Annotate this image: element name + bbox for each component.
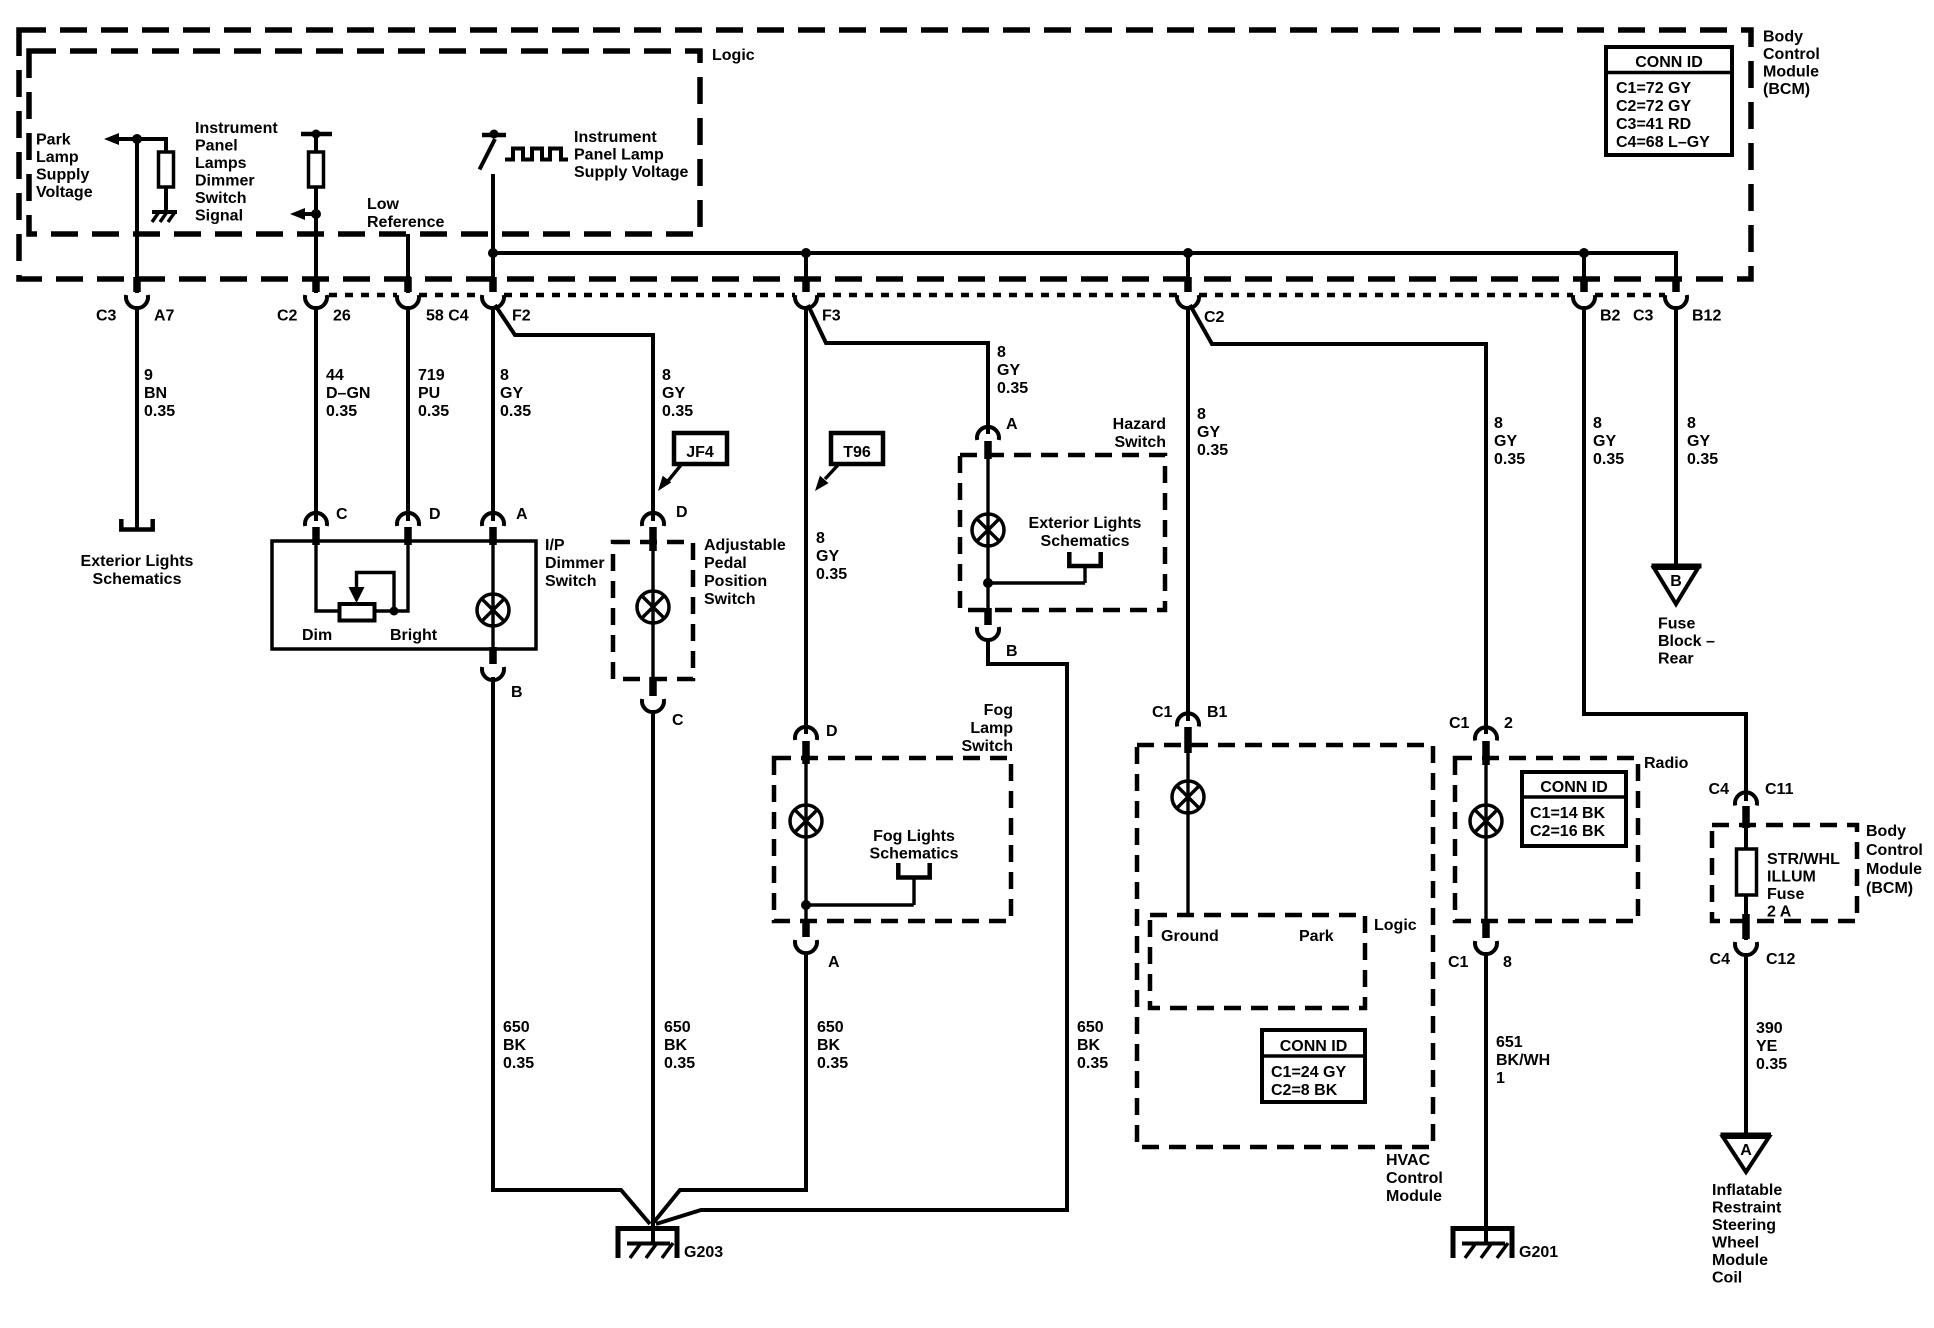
svg-text:Wheel: Wheel [1712,1235,1759,1252]
connector HVAC C1 pin B1 [1152,704,1228,753]
wire 8 GY F2 to dimmer A [491,306,495,521]
off-page bracket exterior lights [121,519,152,530]
label Dim [302,627,332,644]
connector C4 pin 58 [397,277,469,325]
svg-text:0.35: 0.35 [664,1055,695,1072]
connector C4 pin F3 [795,277,841,325]
svg-text:Ground: Ground [1161,928,1219,945]
wire resistor to ground [164,187,168,212]
label Bright [390,627,438,644]
svg-text:Fuse: Fuse [1767,886,1804,903]
wire F2 branch to pedal D [495,305,653,521]
label Hazard Switch [1113,416,1166,451]
label Exterior Lights Schematics (hazard) [1029,515,1142,550]
svg-text:Lamp: Lamp [970,720,1013,737]
lamp hazard illumination [972,514,1004,546]
svg-text:C2=72 GY: C2=72 GY [1616,98,1691,115]
wire switch to bus [491,174,495,281]
svg-text:Park: Park [1299,928,1334,945]
svg-text:C1=24 GY: C1=24 GY [1271,1064,1346,1081]
svg-text:Supply Voltage: Supply Voltage [574,164,688,181]
svg-text:C3=41 RD: C3=41 RD [1616,116,1691,133]
wire park to resistor [137,139,166,153]
wire 650 BK pedal to G203 [651,710,655,1243]
ground G203 [618,1229,677,1259]
svg-text:BK: BK [503,1037,527,1054]
svg-text:Schematics: Schematics [93,571,182,588]
CONN ID table (BCM) [1606,47,1732,155]
svg-text:I/P: I/P [545,537,565,554]
label Instrument Panel Lamps Dimmer Switch Signal [195,120,278,225]
connector hazard pin A [977,416,1018,459]
label Body Control Module (BCM) top right [1763,29,1820,99]
label 390 YE 0.35 [1756,1020,1787,1073]
svg-text:Schematics: Schematics [870,846,959,863]
label Body Control Module (BCM) right [1866,823,1923,897]
wire through fuse [1744,806,1748,940]
lamp fog switch illumination [790,805,822,837]
label I/P Dimmer Switch [545,537,605,590]
wire 650 BK hazard to G203 [656,639,1067,1224]
connector C2 (HVAC drop) [1177,277,1225,326]
svg-text:Supply: Supply [36,167,89,184]
svg-text:Hazard: Hazard [1113,416,1166,433]
wire dimmer D leg [374,541,408,611]
lamp radio illumination [1470,805,1502,837]
svg-text:C1=72 GY: C1=72 GY [1616,80,1691,97]
connector C3 pin B2 [1573,277,1654,325]
svg-text:(BCM): (BCM) [1866,880,1913,897]
dotted in-line connector row [329,293,1665,298]
svg-text:Control: Control [1763,46,1820,63]
off-page bracket fog lights [898,863,929,905]
svg-text:C11: C11 [1765,781,1794,798]
svg-text:G203: G203 [684,1244,723,1261]
svg-text:650: 650 [1077,1019,1104,1036]
svg-text:8: 8 [1503,954,1512,971]
svg-text:GY: GY [997,362,1020,379]
svg-text:1: 1 [1496,1070,1505,1087]
wire 651 BK/WH to G201 [1484,952,1488,1243]
svg-text:GY: GY [1494,433,1517,450]
svg-text:0.35: 0.35 [1687,451,1718,468]
svg-text:650: 650 [817,1019,844,1036]
wire bus drop to C2 [1186,253,1190,281]
svg-text:D: D [429,506,441,523]
svg-text:8: 8 [1494,415,1503,432]
label HVAC Control Module [1386,1152,1443,1205]
svg-text:719: 719 [418,367,445,384]
svg-text:C: C [672,712,684,729]
wire 719 PU [406,306,410,521]
svg-text:A: A [828,954,840,971]
wire 650 BK fog to G203 [654,952,806,1222]
svg-text:YE: YE [1756,1038,1778,1055]
wire bus drop to B2 [1582,253,1586,281]
label Inflatable Restraint Steering Wheel Module Coil [1712,1182,1782,1287]
box Radio [1455,758,1638,921]
label 44 D-GN 0.35 [326,367,370,420]
lamp pedal illumination [637,591,669,623]
svg-text:T96: T96 [843,444,871,461]
svg-text:8: 8 [1593,415,1602,432]
svg-text:Switch: Switch [195,190,247,207]
svg-text:0.35: 0.35 [662,403,693,420]
wire 8 GY to HVAC [1186,306,1190,721]
wire 8 GY B12 to fuse block [1674,306,1678,565]
node bus junction at B2 [1579,248,1589,258]
node hazard junction [983,578,1085,588]
svg-text:Fog Lights: Fog Lights [873,828,955,845]
svg-text:C4=68 L–GY: C4=68 L–GY [1616,134,1710,151]
svg-text:JF4: JF4 [686,444,714,461]
box Fog Lamp Switch [774,758,1011,921]
svg-text:Adjustable: Adjustable [704,537,786,554]
svg-text:A: A [1006,416,1018,433]
resistor park pull-up [159,152,174,187]
svg-text:0.35: 0.35 [1197,442,1228,459]
label Logic (HVAC) [1374,917,1417,934]
wire pedal lamp leg [651,542,654,679]
wire 9 BN to exterior lights [135,306,139,528]
svg-text:Control: Control [1866,842,1923,859]
switch IP lamp supply [480,130,507,170]
svg-text:Logic: Logic [712,47,755,64]
label 650 BK 0.35 (fog) [817,1019,848,1072]
connector fog pin A [795,921,840,971]
off-page bracket exterior lights (hazard) [1069,552,1100,583]
off-page triangle B [1652,566,1702,604]
wire internal supply bus [493,253,1676,281]
svg-text:Switch: Switch [545,573,597,590]
svg-text:BK: BK [1077,1037,1101,1054]
svg-text:B: B [1670,573,1682,590]
svg-text:8: 8 [662,367,671,384]
svg-text:CONN ID: CONN ID [1280,1038,1348,1055]
svg-text:C2: C2 [277,308,298,325]
svg-text:26: 26 [333,308,351,325]
wire low reference [406,234,410,293]
svg-text:Steering: Steering [1712,1217,1776,1234]
label 8 GY 0.35 (fog feed) [816,530,847,583]
svg-text:8: 8 [816,530,825,547]
svg-text:0.35: 0.35 [816,566,847,583]
box Body Control Module (BCM) fuse [1712,825,1857,921]
Body Control Module (BCM) outer dashed box [19,30,1751,279]
connector C3 pin B12 [1665,277,1721,325]
svg-text:D: D [826,723,838,740]
svg-text:Inflatable: Inflatable [1712,1182,1782,1199]
wire HVAC lamp leg [1186,745,1189,915]
svg-text:B1: B1 [1207,704,1228,721]
label Logic [712,47,755,64]
connector hazard pin B [977,608,1018,660]
svg-text:C3: C3 [96,308,117,325]
connector pedal pin D [642,504,688,551]
svg-text:Switch: Switch [704,591,756,608]
wire fog lamp leg [804,758,807,921]
svg-text:B2: B2 [1600,308,1621,325]
svg-text:Fog: Fog [984,702,1013,719]
connector pedal pin C [642,677,684,729]
svg-text:8: 8 [1197,406,1206,423]
label 8 GY 0.35 (pedal feed) [662,367,693,420]
box I/P Dimmer Switch [272,541,536,649]
svg-text:Body: Body [1763,29,1803,46]
svg-text:A: A [1740,1142,1752,1159]
svg-text:0.35: 0.35 [326,403,357,420]
ground G201 [1453,1229,1512,1259]
svg-text:HVAC: HVAC [1386,1152,1431,1169]
label Fog Lamp Switch [961,702,1013,755]
label Fuse Block Rear [1658,616,1715,668]
svg-text:GY: GY [816,548,839,565]
svg-text:C: C [336,506,348,523]
svg-text:STR/WHL: STR/WHL [1767,851,1840,868]
wire 650 BK dimmer to G203 [493,677,650,1224]
splice label T96 [815,433,883,491]
label STR/WHL ILLUM Fuse 2 A [1767,851,1840,921]
wire F3 branch to hazard [808,305,988,434]
svg-text:Pedal: Pedal [704,555,747,572]
label Low Reference [367,196,444,231]
connector C4 pin F2 [482,277,531,325]
label 8 GY 0.35 (hazard feed) [997,344,1028,397]
svg-text:G201: G201 [1519,1244,1558,1261]
label 8 GY 0.35 (B12) [1687,415,1718,468]
svg-text:Fuse: Fuse [1658,616,1695,633]
svg-text:2 A: 2 A [1767,904,1792,921]
svg-text:Position: Position [704,573,767,590]
svg-text:BK/WH: BK/WH [1496,1052,1550,1069]
svg-text:Panel Lamp: Panel Lamp [574,147,664,164]
connector radio C1 pin 2 [1449,715,1513,765]
wire 44 D-GN [314,306,318,521]
svg-text:PU: PU [418,385,440,402]
svg-text:8: 8 [1687,415,1696,432]
lamp dimmer illumination [477,594,509,626]
arrow park lamp supply [104,133,137,145]
svg-text:0.35: 0.35 [500,403,531,420]
node bus junction at C2 [1183,248,1193,258]
label 650 BK 0.35 (pedal) [664,1019,695,1072]
svg-text:Panel: Panel [195,138,238,155]
svg-text:C1: C1 [1448,954,1469,971]
svg-text:GY: GY [1687,433,1710,450]
wire radio lamp leg [1484,758,1487,921]
svg-text:0.35: 0.35 [1593,451,1624,468]
svg-text:Signal: Signal [195,208,243,225]
svg-text:BK: BK [817,1037,841,1054]
off-page triangle A [1721,1135,1772,1172]
svg-text:Block –: Block – [1658,633,1715,650]
connector radio C1 pin 8 [1448,921,1512,971]
svg-text:9: 9 [144,367,153,384]
svg-text:Exterior Lights: Exterior Lights [1029,515,1142,532]
svg-text:Module: Module [1866,861,1922,878]
potentiometer dimmer [340,604,375,621]
svg-text:Lamps: Lamps [195,155,247,172]
wire 8 GY B2 to BCM fuse [1584,306,1746,801]
label 8 GY 0.35 (HVAC) [1197,406,1228,459]
svg-text:Radio: Radio [1644,755,1689,772]
wire dimmer signal down [314,187,318,293]
svg-text:651: 651 [1496,1034,1523,1051]
svg-text:Body: Body [1866,823,1906,840]
svg-text:Dimmer: Dimmer [545,555,605,572]
svg-text:Schematics: Schematics [1041,533,1130,550]
arrow low side [290,208,316,220]
svg-text:BN: BN [144,385,167,402]
box Adjustable Pedal Position Switch [613,542,693,679]
connector fog pin D [795,723,838,764]
connector C2 pin 26 [277,277,351,325]
wire 8 GY F3 to fog switch [804,306,808,734]
svg-text:C2: C2 [1204,309,1225,326]
svg-text:F3: F3 [822,308,841,325]
node fog junction [801,900,914,910]
label G201 [1519,1244,1558,1261]
wire dimmer A leg [491,541,494,649]
wire bar to resistor [314,134,318,153]
wire dimmer C leg [316,541,340,611]
svg-text:C1: C1 [1449,715,1470,732]
svg-text:0.35: 0.35 [418,403,449,420]
svg-text:390: 390 [1756,1020,1783,1037]
svg-text:C1: C1 [1152,704,1173,721]
wire park lamp feed down [135,139,139,293]
wiper arm dimmer [349,573,395,612]
svg-text:Module: Module [1763,64,1819,81]
svg-text:C2=8 BK: C2=8 BK [1271,1082,1338,1099]
label 650 BK 0.35 (hazard) [1077,1019,1108,1072]
svg-text:0.35: 0.35 [1756,1056,1787,1073]
svg-text:ILLUM: ILLUM [1767,869,1816,886]
svg-text:C2=16 BK: C2=16 BK [1530,823,1606,840]
svg-text:Restraint: Restraint [1712,1200,1782,1217]
label Instrument Panel Lamp Supply Voltage [574,129,688,181]
svg-text:8: 8 [500,367,509,384]
svg-text:A: A [516,506,528,523]
label Park Lamp Supply Voltage [36,132,93,202]
label 651 BK/WH 1 [1496,1034,1550,1087]
svg-text:0.35: 0.35 [144,403,175,420]
svg-text:Dimmer: Dimmer [195,173,255,190]
label Exterior Lights Schematics (left) [81,553,194,588]
svg-text:C12: C12 [1766,951,1795,968]
connector BCM C4 pin C12 [1710,914,1796,968]
svg-text:Bright: Bright [390,627,438,644]
Logic inner dashed box [29,51,700,234]
svg-text:8: 8 [997,344,1006,361]
label 719 PU 0.35 [418,367,449,420]
fuse STR/WHL ILLUM 2A [1737,849,1757,895]
CONN ID table (radio) [1522,772,1626,846]
resistor dimmer signal [309,152,324,187]
svg-text:2: 2 [1504,715,1513,732]
svg-text:Instrument: Instrument [195,120,278,137]
svg-text:Switch: Switch [961,738,1013,755]
svg-text:Exterior Lights: Exterior Lights [81,553,194,570]
wire 390 YE to SDM coil [1744,953,1748,1133]
svg-text:C3: C3 [1633,308,1654,325]
node bus junction at F3 [801,248,811,258]
connector BCM C4 pin C11 [1709,781,1794,828]
svg-text:Switch: Switch [1114,434,1166,451]
connector dimmer pin B [482,647,523,701]
CONN ID table (HVAC) [1262,1030,1365,1102]
label 8 GY 0.35 (B2) [1593,415,1624,468]
svg-text:B: B [511,684,523,701]
connector dimmer pin C [305,506,348,545]
svg-text:0.35: 0.35 [1494,451,1525,468]
svg-text:GY: GY [1593,433,1616,450]
svg-text:58 C4: 58 C4 [426,308,469,325]
svg-text:CONN ID: CONN ID [1540,779,1608,796]
svg-text:(BCM): (BCM) [1763,81,1810,98]
node wiper junction [390,607,399,616]
label Ground [1161,928,1219,945]
svg-text:A7: A7 [154,308,175,325]
svg-text:GY: GY [1197,424,1220,441]
svg-text:0.35: 0.35 [1077,1055,1108,1072]
symbol PWM square wave [505,149,568,160]
svg-text:Rear: Rear [1658,651,1694,668]
lamp HVAC illumination [1172,781,1204,813]
splice label JF4 [658,433,727,491]
wire hazard lamp leg [986,455,989,610]
box HVAC logic (Ground/Park) [1150,915,1365,1008]
svg-text:Instrument: Instrument [574,129,657,146]
label 9 BN 0.35 [144,367,175,420]
svg-text:BK: BK [664,1037,688,1054]
svg-text:GY: GY [500,385,523,402]
label G203 [684,1244,723,1261]
label 650 BK 0.35 (dimmer) [503,1019,534,1072]
svg-text:CONN ID: CONN ID [1635,54,1703,71]
node bus junction at F2 [488,248,498,258]
label 8 GY 0.35 (radio) [1494,415,1525,468]
box Hazard Switch [960,455,1165,610]
svg-text:Reference: Reference [367,214,444,231]
terminal bar dimmer signal [301,130,332,139]
label Park [1299,928,1334,945]
svg-text:C4: C4 [1709,781,1730,798]
label Radio [1644,755,1689,772]
svg-text:C4: C4 [1710,951,1731,968]
svg-text:Park: Park [36,132,71,149]
wire bus drop to F3 [804,253,808,281]
connector dimmer pin A [482,506,528,545]
label 8 GY 0.35 (F2 straight) [500,367,531,420]
svg-text:0.35: 0.35 [503,1055,534,1072]
svg-text:B12: B12 [1692,308,1721,325]
svg-text:650: 650 [503,1019,530,1036]
connector dimmer pin D [397,506,441,545]
svg-text:GY: GY [662,385,685,402]
node park junction [132,134,142,144]
svg-text:Voltage: Voltage [36,184,93,201]
box HVAC Control Module [1137,745,1433,1147]
svg-text:Lamp: Lamp [36,149,79,166]
label Adjustable Pedal Position Switch [704,537,786,608]
svg-text:F2: F2 [512,308,531,325]
svg-text:C1=14 BK: C1=14 BK [1530,805,1606,822]
svg-text:Logic: Logic [1374,917,1417,934]
node dimmer signal junction [311,209,321,219]
svg-text:Control: Control [1386,1170,1443,1187]
svg-text:Module: Module [1386,1188,1442,1205]
